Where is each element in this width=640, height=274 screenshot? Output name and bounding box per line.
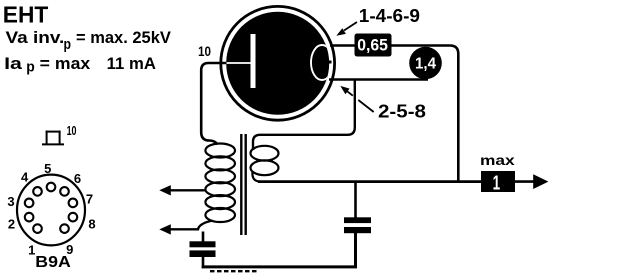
top cap symbol: [42, 131, 64, 145]
wire main output line: [258, 180, 481, 183]
capacitor right plate top: [344, 217, 371, 223]
pin 5: [47, 183, 56, 192]
wire filament top lead to riser: [330, 46, 458, 182]
wire bottom return: [202, 233, 356, 267]
svg-text:8: 8: [88, 217, 95, 232]
svg-text:1-4-6-9: 1-4-6-9: [359, 6, 420, 26]
transformer primary loops: [205, 144, 235, 223]
box 0,65 heater current: [355, 34, 392, 57]
svg-text:0,65: 0,65: [357, 36, 388, 54]
circle 1,4 heater voltage: [409, 47, 442, 80]
transformer secondary loop 1: [251, 146, 279, 161]
leader arrow to envelope top: [336, 22, 357, 36]
capacitor left plate top: [190, 241, 216, 247]
anode lead inside disc: [227, 62, 251, 64]
wire primary bottom lead arrow: [159, 221, 212, 235]
B9A base circle: [17, 175, 85, 246]
svg-text:2: 2: [8, 216, 15, 231]
rating line Ia: [4, 55, 156, 75]
svg-text:1: 1: [28, 243, 35, 258]
svg-text:11 mA: 11 mA: [107, 55, 156, 73]
svg-text:2-5-8: 2-5-8: [378, 102, 426, 122]
tube V1 envelope: [221, 6, 335, 120]
dashed chassis mark: [210, 270, 258, 272]
svg-text:B9A: B9A: [35, 254, 71, 271]
svg-text:EHT: EHT: [3, 2, 49, 28]
wire filament bottom lead: [329, 78, 428, 81]
wire to left capacitor: [202, 232, 205, 242]
svg-text:1: 1: [493, 172, 501, 194]
transformer core: [241, 134, 245, 235]
svg-text:= max: = max: [40, 55, 91, 73]
svg-text:p: p: [26, 59, 35, 75]
wire primary tap arrow: [159, 185, 206, 195]
filament cathode circle: [311, 45, 333, 80]
tube V1 anode disc: [226, 12, 329, 115]
svg-text:10: 10: [198, 44, 211, 59]
wire left capacitor to bottom: [202, 257, 205, 268]
svg-text:6: 6: [74, 171, 81, 186]
svg-text:5: 5: [44, 161, 51, 176]
svg-text:p: p: [64, 37, 72, 53]
rating line Va inv: [6, 29, 171, 53]
box 1 output: [481, 171, 515, 192]
wire pin10 to coil: [201, 63, 226, 145]
pin 2: [25, 213, 34, 222]
pin 6: [60, 187, 69, 196]
pin 1: [33, 224, 42, 233]
svg-text:Va inv.: Va inv.: [6, 29, 65, 47]
anode bar electrode: [251, 34, 256, 88]
svg-text:10: 10: [67, 123, 77, 138]
pin 4: [33, 187, 42, 196]
svg-text:7: 7: [86, 191, 93, 206]
wire secondary bottom lead: [252, 172, 260, 182]
capacitor left plate bottom: [190, 250, 216, 257]
pin 9: [60, 224, 69, 233]
svg-text:= max. 25kV: = max. 25kV: [76, 29, 171, 47]
svg-text:4: 4: [21, 169, 29, 184]
svg-text:1,4: 1,4: [415, 55, 436, 72]
transformer secondary loop 2: [251, 160, 279, 175]
wire right capacitor top lead: [354, 182, 357, 218]
svg-text:Ia: Ia: [4, 55, 23, 73]
leader arrow to envelope lower right: [340, 86, 373, 112]
svg-text:max: max: [480, 152, 515, 168]
capacitor right plate bottom: [344, 227, 371, 233]
pin 8: [69, 213, 78, 222]
filament tick: [327, 61, 332, 64]
svg-text:3: 3: [7, 194, 14, 209]
pin 3: [25, 199, 34, 208]
wire output arrow: [515, 174, 548, 189]
wire heater branch to secondary top: [253, 80, 355, 151]
pin 7: [69, 199, 78, 208]
